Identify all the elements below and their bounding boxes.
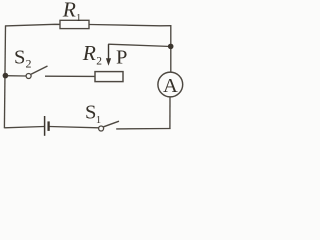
wire bottom left segment: [4, 127, 44, 128]
node junction left: [3, 73, 9, 79]
wire top: [5, 24, 171, 26]
svg-text:2: 2: [96, 55, 102, 67]
rheostat R2: [95, 72, 123, 82]
svg-text:A: A: [163, 75, 178, 97]
switch S1: [99, 126, 104, 131]
svg-text:S: S: [14, 47, 25, 69]
svg-text:1: 1: [76, 13, 81, 24]
svg-text:S: S: [85, 102, 96, 124]
wire left: [4, 26, 5, 129]
potentiometer wiper arrow P: [108, 44, 110, 60]
battery: [44, 116, 46, 136]
svg-text:R: R: [82, 41, 96, 65]
svg-text:1: 1: [96, 115, 101, 126]
svg-text:R: R: [62, 0, 76, 21]
wire wiper to junction: [108, 44, 171, 46]
wire right upper: [170, 25, 172, 72]
wire right lower: [169, 97, 171, 129]
wire battery to S1: [50, 127, 99, 128]
wire junction to S2: [5, 75, 26, 77]
wire S2 to R2: [45, 75, 95, 77]
node junction right: [168, 44, 174, 50]
ammeter A: [158, 72, 183, 97]
svg-text:P: P: [116, 47, 127, 69]
resistor R1: [60, 20, 89, 28]
switch S2: [26, 74, 31, 79]
wire bottom right segment: [116, 128, 170, 130]
svg-text:2: 2: [26, 57, 32, 71]
